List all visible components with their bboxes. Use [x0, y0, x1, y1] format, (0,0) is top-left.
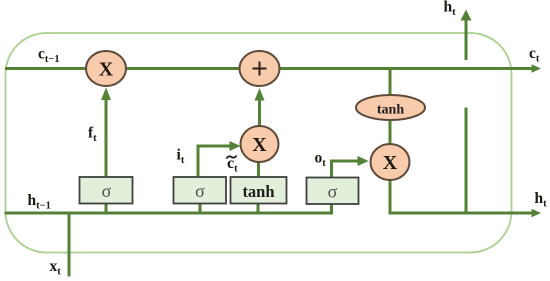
svg-text:ht−1: ht−1: [28, 192, 51, 212]
svg-text:xt: xt: [50, 258, 62, 278]
svg-text:σ: σ: [195, 181, 205, 201]
svg-text:tanh: tanh: [242, 182, 274, 201]
svg-text:ct−1: ct−1: [38, 46, 60, 66]
svg-text:X: X: [252, 134, 267, 156]
svg-text:σ: σ: [328, 182, 338, 202]
svg-text:it: it: [177, 147, 185, 167]
svg-text:σ: σ: [102, 181, 112, 201]
svg-text:ht: ht: [444, 0, 457, 18]
svg-text:ot: ot: [315, 150, 327, 170]
svg-text:ct: ct: [529, 45, 540, 65]
svg-text:ht: ht: [535, 190, 548, 210]
svg-text:tanh: tanh: [377, 103, 404, 118]
svg-text:ft: ft: [88, 125, 97, 145]
svg-text:X: X: [99, 59, 114, 81]
svg-text:X: X: [383, 152, 398, 174]
